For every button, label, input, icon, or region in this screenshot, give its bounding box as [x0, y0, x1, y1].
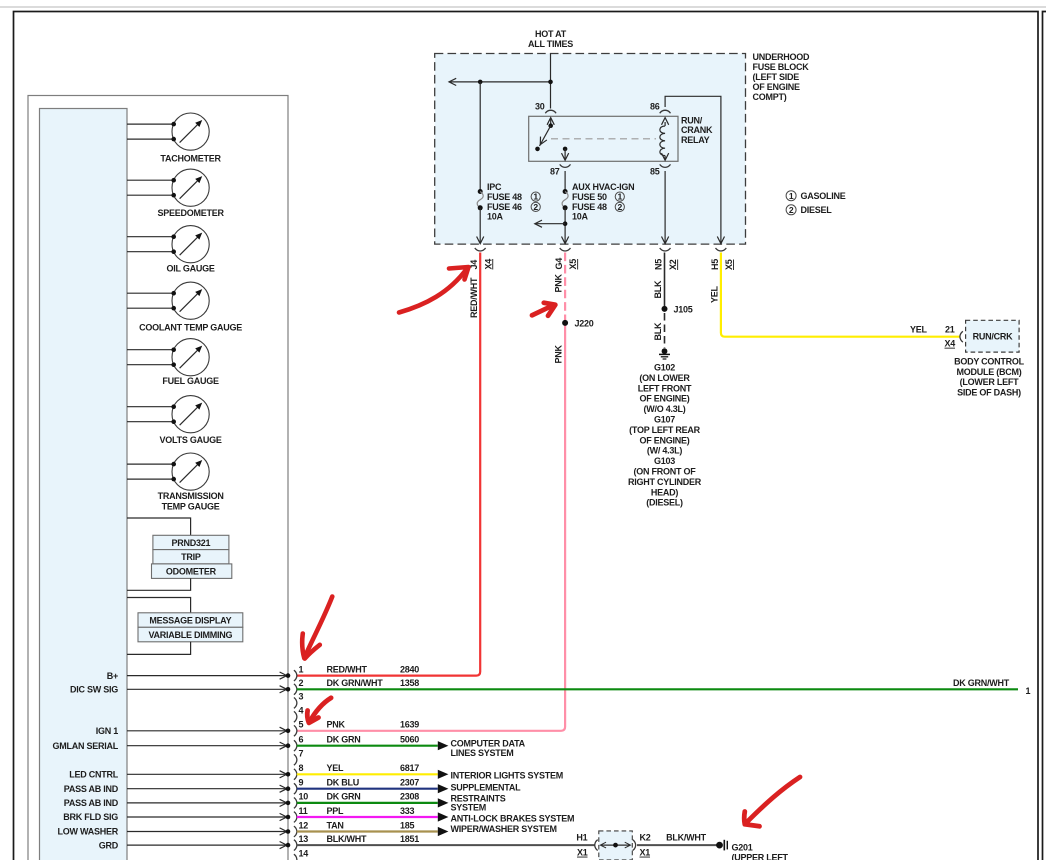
svg-text:(LOWER LEFT: (LOWER LEFT: [960, 377, 1019, 387]
svg-text:10A: 10A: [487, 211, 504, 221]
svg-text:FUSE 48: FUSE 48: [487, 192, 522, 202]
wire DK GRN/WHT 1358 (pin 2) to page right: [297, 678, 1031, 696]
wire pin 10 to SRS (dk grn): [297, 798, 449, 807]
svg-text:COMPUTER DATA: COMPUTER DATA: [451, 738, 526, 748]
inline connector H1/K2 X1: [576, 831, 716, 860]
red annotation arrow at J4 connector: [399, 267, 469, 313]
svg-text:PNK: PNK: [327, 720, 346, 730]
svg-text:5060: 5060: [400, 735, 419, 745]
gauge: FUEL GAUGE: [127, 339, 219, 386]
red annotation arrow at G201: [744, 777, 800, 826]
instrument cluster blue panel: [40, 109, 128, 860]
relay 86 feed wire: [665, 96, 724, 243]
PRND321 / TRIP / ODOMETER display: [127, 518, 232, 590]
svg-text:2840: 2840: [400, 664, 419, 674]
AUX HVAC-IGN fuse: [535, 171, 635, 244]
relay 85 output wire: [662, 171, 669, 244]
wire RED/WHT 2840 (pin 1): [297, 253, 480, 676]
svg-text:DK GRN: DK GRN: [327, 792, 361, 802]
cluster output wire LOW WASHER (pin 12): [58, 827, 291, 837]
svg-text:G4: G4: [554, 258, 564, 270]
cluster output wire IGN 1 (pin 5): [96, 726, 291, 736]
svg-text:MODULE (BCM): MODULE (BCM): [957, 367, 1022, 377]
svg-text:PRND321: PRND321: [172, 538, 211, 548]
wire pin 9 to SRS (dk blu): [297, 784, 449, 793]
svg-text:4: 4: [299, 706, 304, 716]
svg-text:BLK/WHT: BLK/WHT: [666, 832, 706, 842]
fuse block exit connector H5/X5: [710, 248, 734, 270]
splice J220: [562, 318, 594, 328]
cluster output wire BRK FLD SIG (pin 11): [63, 812, 290, 822]
svg-text:BODY CONTROL: BODY CONTROL: [954, 356, 1025, 366]
svg-text:1851: 1851: [400, 834, 419, 844]
svg-text:X1: X1: [577, 848, 588, 858]
battery feed wire: [449, 54, 553, 109]
svg-text:30: 30: [535, 102, 545, 112]
svg-text:(UPPER LEFT: (UPPER LEFT: [732, 853, 789, 860]
HOT AT ALL TIMES label: [528, 29, 573, 49]
svg-text:2307: 2307: [400, 778, 419, 788]
svg-text:PNK: PNK: [554, 344, 564, 363]
svg-text:TEMP GAUGE: TEMP GAUGE: [162, 501, 220, 511]
svg-text:MESSAGE DISPLAY: MESSAGE DISPLAY: [149, 615, 231, 625]
svg-text:FUSE BLOCK: FUSE BLOCK: [753, 62, 810, 72]
svg-text:BLK: BLK: [653, 280, 663, 298]
svg-text:GMLAN SERIAL: GMLAN SERIAL: [53, 741, 119, 751]
svg-text:VOLTS GAUGE: VOLTS GAUGE: [160, 435, 222, 445]
svg-text:COOLANT TEMP GAUGE: COOLANT TEMP GAUGE: [139, 322, 242, 332]
legend gasoline/diesel: [786, 191, 846, 215]
gauge: SPEEDOMETER: [127, 169, 224, 218]
svg-text:(W/O 4.3L): (W/O 4.3L): [644, 404, 686, 414]
svg-text:6: 6: [299, 735, 304, 745]
svg-text:SYSTEM: SYSTEM: [451, 803, 487, 813]
svg-text:FUEL GAUGE: FUEL GAUGE: [162, 376, 219, 386]
svg-text:RELAY: RELAY: [681, 135, 710, 145]
BCM connector chevron X4: [960, 331, 963, 342]
svg-text:1: 1: [1026, 686, 1031, 696]
svg-text:OF ENGINE): OF ENGINE): [639, 394, 689, 404]
svg-text:12: 12: [299, 820, 309, 830]
svg-text:X2: X2: [668, 259, 678, 270]
svg-text:TRIP: TRIP: [181, 552, 201, 562]
svg-text:BLK/WHT: BLK/WHT: [327, 834, 367, 844]
svg-text:AUX HVAC-IGN: AUX HVAC-IGN: [572, 182, 634, 192]
svg-text:SUPPLEMENTAL: SUPPLEMENTAL: [451, 783, 522, 793]
wire pin 8 to interior lights system: [297, 770, 449, 779]
svg-text:J4: J4: [469, 260, 479, 270]
wire color and circuit number labels: [327, 664, 420, 844]
svg-text:DK GRN: DK GRN: [327, 735, 361, 745]
svg-text:2308: 2308: [400, 792, 419, 802]
svg-text:185: 185: [400, 820, 415, 830]
svg-text:X1: X1: [640, 848, 651, 858]
svg-text:B+: B+: [107, 671, 118, 681]
svg-text:HOT AT: HOT AT: [535, 29, 567, 39]
wire pin 6 to computer data lines system: [297, 741, 449, 750]
svg-text:TACHOMETER: TACHOMETER: [160, 153, 221, 163]
svg-text:7: 7: [299, 749, 304, 759]
svg-text:(TOP LEFT REAR: (TOP LEFT REAR: [629, 425, 700, 435]
cluster output wire LED CNTRL (pin 8): [69, 770, 290, 780]
svg-text:SIDE OF DASH): SIDE OF DASH): [957, 388, 1021, 398]
svg-text:87: 87: [550, 166, 560, 176]
underhood fuse block (dashed box): [435, 52, 810, 244]
svg-text:PASS AB IND: PASS AB IND: [64, 798, 119, 808]
svg-text:DK GRN/WHT: DK GRN/WHT: [327, 678, 384, 688]
svg-text:IGN 1: IGN 1: [96, 726, 119, 736]
svg-text:G102: G102: [654, 363, 675, 373]
svg-text:1639: 1639: [400, 720, 419, 730]
svg-text:BLK: BLK: [653, 322, 663, 340]
svg-text:86: 86: [650, 102, 660, 112]
svg-text:J220: J220: [575, 318, 594, 328]
svg-text:BRK FLD SIG: BRK FLD SIG: [63, 812, 118, 822]
red annotation arrow at PNK wire: [532, 303, 555, 316]
svg-text:OF ENGINE: OF ENGINE: [753, 82, 801, 92]
svg-text:9: 9: [299, 778, 304, 788]
svg-text:1: 1: [299, 664, 304, 674]
wire YEL to BCM: [709, 253, 960, 349]
svg-text:YEL: YEL: [910, 324, 928, 334]
svg-text:GASOLINE: GASOLINE: [801, 191, 846, 201]
svg-text:LINES SYSTEM: LINES SYSTEM: [451, 748, 514, 758]
fuse block exit connector G4/X5: [554, 248, 578, 270]
svg-text:X5: X5: [568, 259, 578, 270]
instrument cluster outer box: [28, 96, 288, 860]
svg-text:LEFT FRONT: LEFT FRONT: [638, 383, 692, 393]
fuse block exit connector J4/X4: [469, 248, 493, 270]
svg-text:YEL: YEL: [327, 763, 345, 773]
svg-text:2: 2: [533, 202, 538, 212]
svg-text:INTERIOR LIGHTS SYSTEM: INTERIOR LIGHTS SYSTEM: [451, 771, 564, 781]
svg-text:1: 1: [618, 192, 623, 202]
svg-text:K2: K2: [640, 832, 651, 842]
svg-text:RUN/CRK: RUN/CRK: [973, 332, 1013, 342]
wire BLK (pin N5) with splice J105: [653, 253, 693, 349]
svg-text:85: 85: [650, 166, 660, 176]
svg-text:G103: G103: [654, 456, 675, 466]
svg-text:2: 2: [299, 678, 304, 688]
svg-text:PASS AB IND: PASS AB IND: [64, 784, 119, 794]
svg-text:DK BLU: DK BLU: [327, 778, 360, 788]
ground G102/G107/G103: [628, 348, 702, 507]
svg-text:PNK: PNK: [554, 273, 564, 292]
svg-text:8: 8: [299, 763, 304, 773]
cluster output wire PASS AB IND (pin 10): [64, 798, 291, 808]
wire PNK 1639 (pin 5): [297, 253, 565, 731]
svg-text:H5: H5: [710, 259, 720, 270]
svg-text:WIPER/WASHER SYSTEM: WIPER/WASHER SYSTEM: [451, 824, 557, 834]
wire BLK/WHT 1851 (pin 13): [297, 844, 595, 846]
svg-text:11: 11: [299, 806, 308, 816]
svg-text:YEL: YEL: [709, 285, 719, 303]
svg-text:21: 21: [945, 324, 955, 334]
body control module RUN/CRK box: [954, 320, 1025, 397]
svg-text:(DIESEL): (DIESEL): [646, 498, 683, 508]
svg-text:PPL: PPL: [327, 806, 345, 816]
svg-text:RUN/: RUN/: [681, 116, 703, 126]
svg-text:X5: X5: [724, 259, 734, 270]
red annotation arrow at pin 1: [302, 597, 332, 659]
svg-text:DIESEL: DIESEL: [801, 205, 833, 215]
svg-text:G107: G107: [654, 415, 675, 425]
svg-text:HEAD): HEAD): [651, 487, 679, 497]
svg-text:DK GRN/WHT: DK GRN/WHT: [953, 678, 1010, 688]
svg-text:X4: X4: [945, 339, 956, 349]
svg-text:FUSE 50: FUSE 50: [572, 192, 607, 202]
red annotation arrow at pin 5: [307, 698, 331, 723]
wire pin 11 to anti-lock brakes system: [297, 812, 449, 821]
svg-text:G201: G201: [732, 842, 753, 852]
run/crank relay: [529, 102, 713, 177]
svg-text:(W/ 4.3L): (W/ 4.3L): [647, 446, 683, 456]
svg-text:X4: X4: [483, 259, 493, 270]
svg-text:LOW WASHER: LOW WASHER: [58, 827, 119, 837]
svg-text:J105: J105: [674, 304, 693, 314]
svg-text:RED/WHT: RED/WHT: [469, 277, 479, 318]
cluster output wire GRD (pin 13): [99, 840, 291, 850]
gauge: TRANSMISSION TEMP GAUGE: [127, 453, 224, 511]
svg-text:1: 1: [533, 192, 538, 202]
cluster output wire B+ (pin 1): [107, 671, 291, 681]
cluster output wire GMLAN SERIAL (pin 6): [53, 741, 291, 751]
svg-text:FUSE 48: FUSE 48: [572, 202, 607, 212]
svg-text:14: 14: [299, 848, 309, 858]
cluster connector pin chevrons and numbers: [294, 664, 308, 860]
gauge: VOLTS GAUGE: [127, 396, 222, 445]
svg-text:TAN: TAN: [327, 820, 344, 830]
svg-text:ALL TIMES: ALL TIMES: [528, 39, 573, 49]
svg-text:IPC: IPC: [487, 182, 502, 192]
ground G201: [716, 840, 788, 860]
svg-text:2: 2: [618, 202, 623, 212]
svg-text:ODOMETER: ODOMETER: [166, 567, 217, 577]
svg-text:UNDERHOOD: UNDERHOOD: [753, 52, 811, 62]
svg-text:LED CNTRL: LED CNTRL: [69, 770, 118, 780]
svg-text:1: 1: [789, 191, 794, 201]
svg-text:FUSE 46: FUSE 46: [487, 202, 522, 212]
svg-text:(ON LOWER: (ON LOWER: [639, 373, 690, 383]
system labels: [451, 738, 575, 833]
svg-text:2: 2: [789, 205, 794, 215]
MESSAGE DISPLAY / VARIABLE DIMMING display: [127, 598, 243, 655]
svg-text:OIL GAUGE: OIL GAUGE: [167, 264, 215, 274]
svg-text:10: 10: [299, 792, 309, 802]
svg-text:13: 13: [299, 834, 309, 844]
svg-text:3: 3: [299, 692, 304, 702]
svg-text:10A: 10A: [572, 211, 589, 221]
svg-text:H1: H1: [576, 832, 587, 842]
svg-text:TRANSMISSION: TRANSMISSION: [158, 491, 224, 501]
svg-text:DIC SW SIG: DIC SW SIG: [70, 685, 118, 695]
svg-text:OF ENGINE): OF ENGINE): [639, 435, 689, 445]
gauge: OIL GAUGE: [127, 226, 215, 274]
svg-text:COMPT): COMPT): [753, 92, 787, 102]
gauge: TACHOMETER: [127, 113, 222, 163]
svg-text:N5: N5: [654, 259, 664, 270]
IPC fuse: [477, 82, 541, 244]
svg-text:RED/WHT: RED/WHT: [327, 664, 368, 674]
svg-text:(ON FRONT OF: (ON FRONT OF: [634, 467, 697, 477]
svg-text:VARIABLE DIMMING: VARIABLE DIMMING: [148, 630, 232, 640]
svg-text:RIGHT CYLINDER: RIGHT CYLINDER: [628, 477, 702, 487]
wire pin 12 to wiper/washer system: [297, 827, 449, 836]
svg-text:333: 333: [400, 806, 415, 816]
svg-text:6817: 6817: [400, 763, 419, 773]
cluster output wire DIC SW SIG (pin 2): [70, 685, 290, 695]
svg-text:1358: 1358: [400, 678, 419, 688]
svg-text:SPEEDOMETER: SPEEDOMETER: [157, 208, 224, 218]
fuse block exit connector N5/X2: [654, 248, 679, 270]
gauge: COOLANT TEMP GAUGE: [127, 282, 242, 332]
svg-text:GRD: GRD: [99, 840, 119, 850]
cluster output wire PASS AB IND (pin 9): [64, 784, 291, 794]
svg-text:ANTI-LOCK BRAKES SYSTEM: ANTI-LOCK BRAKES SYSTEM: [451, 814, 575, 824]
svg-text:CRANK: CRANK: [681, 125, 713, 135]
svg-text:(LEFT SIDE: (LEFT SIDE: [753, 72, 800, 82]
svg-text:5: 5: [299, 720, 304, 730]
